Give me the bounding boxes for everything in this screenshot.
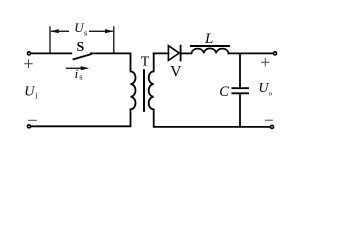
svg-text:L: L xyxy=(204,31,213,47)
svg-text:V: V xyxy=(170,63,182,80)
svg-text:C: C xyxy=(219,84,229,100)
svg-text:U: U xyxy=(24,85,35,100)
svg-text:o: o xyxy=(269,90,272,97)
svg-text:s: s xyxy=(79,72,82,82)
svg-text:s: s xyxy=(84,27,87,37)
svg-text:T: T xyxy=(141,55,150,70)
svg-text:S: S xyxy=(77,39,85,54)
svg-text:U: U xyxy=(258,81,269,96)
svg-text:i: i xyxy=(75,66,79,81)
